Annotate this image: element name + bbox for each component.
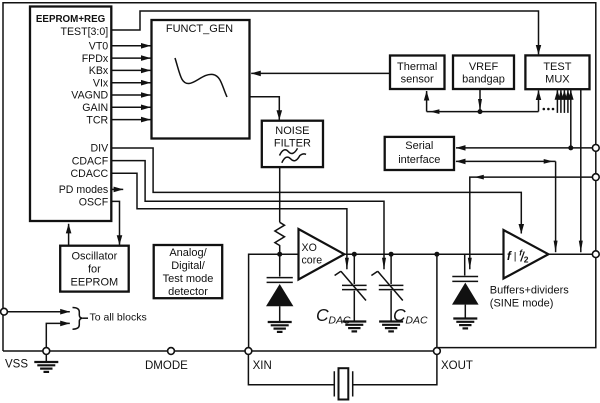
- svg-text:interface: interface: [398, 154, 440, 166]
- pad XOUT: [434, 348, 441, 355]
- svg-text:DIV: DIV: [91, 143, 110, 155]
- svg-text:Serial: Serial: [405, 140, 433, 152]
- svg-text:Test mode: Test mode: [163, 273, 214, 285]
- svg-text:C: C: [393, 305, 406, 325]
- svg-text:FPDx: FPDx: [82, 53, 109, 65]
- wire NOISE FILTER to resistor: [279, 167, 281, 222]
- op-amp buffers f/f2: [504, 230, 549, 279]
- svg-text:FUNCT_GEN: FUNCT_GEN: [166, 23, 233, 35]
- wire to all blocks from VSS: [46, 323, 70, 347]
- pad right serial 2: [592, 174, 599, 181]
- varactor left: [279, 254, 281, 276]
- ground VSS: [34, 362, 58, 372]
- pad VSS: [43, 348, 50, 355]
- wire FUNCT_GEN to NOISE FILTER: [250, 97, 280, 120]
- brace to all blocks: [73, 308, 83, 330]
- svg-text:GAIN: GAIN: [82, 102, 108, 114]
- svg-text:DAC: DAC: [328, 314, 351, 326]
- svg-text:CDACF: CDACF: [72, 155, 109, 167]
- svg-text:C: C: [316, 305, 329, 325]
- svg-text:TCR: TCR: [86, 114, 108, 126]
- noise squiggle symbol: [280, 148, 298, 155]
- svg-text:Oscillator: Oscillator: [71, 250, 117, 262]
- wire thermal sensor to FUNCT_GEN: [251, 72, 390, 74]
- svg-text:TEST[3:0]: TEST[3:0]: [61, 26, 109, 38]
- arrowhead left at thermal corner: [430, 109, 440, 114]
- wire KBx: [111, 69, 150, 71]
- svg-text:KBx: KBx: [89, 65, 109, 77]
- ground CDAC2: [379, 322, 403, 332]
- svg-text:for: for: [88, 263, 101, 275]
- wire CDACF control: [111, 161, 384, 270]
- junction XOUT riser: [434, 252, 439, 257]
- block FUNCT_GEN: [152, 20, 250, 139]
- wire GAIN: [111, 106, 150, 108]
- svg-text:core: core: [302, 255, 323, 267]
- varactor right: [464, 254, 466, 275]
- svg-text:PD modes: PD modes: [59, 184, 108, 196]
- svg-text:TEST: TEST: [543, 61, 571, 73]
- svg-text:CDACC: CDACC: [71, 168, 109, 180]
- crystal X1: [334, 371, 352, 396]
- ground varactor left: [268, 322, 292, 332]
- test mux fan arrow 5 from serial line: [570, 90, 572, 148]
- svg-text:DMODE: DMODE: [145, 360, 188, 372]
- junction serial line 1: [568, 145, 573, 150]
- junction VREF feed: [478, 109, 483, 114]
- block NOISE FILTER: [262, 121, 323, 167]
- svg-text:Analog/: Analog/: [169, 247, 207, 259]
- svg-text:sensor: sensor: [401, 74, 434, 86]
- arrow down from VREF bandgap: [479, 89, 481, 111]
- svg-text:VREF: VREF: [469, 61, 499, 73]
- wire VIx: [111, 82, 150, 84]
- rail buffers to output pad: [548, 253, 594, 255]
- test mux fan arrow 1: [556, 90, 558, 113]
- arrow up into TEST MUX bottom: [538, 91, 540, 112]
- wire TCR: [111, 119, 150, 121]
- wire FPDx: [111, 57, 150, 59]
- block Oscillator for EEPROM: [60, 246, 129, 292]
- wire VAGND: [111, 94, 150, 96]
- rail XO core to buffers: [344, 253, 503, 255]
- wire pad line to varactor control: [470, 177, 594, 269]
- ground CDAC1: [342, 322, 366, 332]
- svg-text:VIx: VIx: [93, 77, 109, 89]
- svg-text:|: |: [514, 251, 517, 263]
- wire TEST[3:0] to TEST MUX: [111, 11, 538, 54]
- wire XOUT riser: [436, 254, 438, 351]
- rail XIN side: [249, 254, 299, 351]
- svg-text:2: 2: [524, 255, 529, 265]
- FUNCT_GEN transfer curve: [175, 58, 227, 97]
- arrow up into thermal sensor: [426, 91, 428, 112]
- wire thermal sensor bottom feed: [427, 111, 539, 113]
- test mux fan arrow 2: [560, 90, 562, 113]
- svg-text:To all blocks: To all blocks: [90, 311, 147, 323]
- wire PD modes stub: [111, 188, 123, 190]
- pad DMODE: [168, 348, 175, 355]
- svg-text:MUX: MUX: [545, 74, 570, 86]
- pad XIN: [245, 348, 252, 355]
- svg-text:FILTER: FILTER: [274, 138, 311, 150]
- ellipsis dots: [543, 108, 546, 111]
- block Analog/Digital/Test mode detector: [154, 245, 223, 298]
- test mux fan arrow 4: [567, 90, 569, 113]
- block Thermal sensor: [390, 56, 445, 90]
- block TEST MUX: [525, 55, 589, 89]
- block Serial interface: [385, 137, 454, 170]
- wire CDACC control: [111, 173, 347, 269]
- wire serial interface line 1: [456, 147, 594, 149]
- svg-text:bandgap: bandgap: [462, 74, 505, 86]
- block VREF bandgap: [453, 56, 514, 90]
- resistor: [275, 222, 285, 254]
- svg-text:Digital/: Digital/: [171, 260, 206, 272]
- wire OSCF to oscillator: [111, 201, 119, 244]
- svg-text:f: f: [507, 249, 512, 263]
- capacitor CDAC2: [389, 252, 394, 257]
- pad right serial 1: [592, 145, 599, 152]
- pad left VSS sense: [1, 308, 8, 315]
- svg-text:OSCF: OSCF: [79, 197, 109, 209]
- junction resistor to rail: [277, 252, 282, 257]
- svg-text:NOISE: NOISE: [275, 125, 309, 137]
- svg-text:XIN: XIN: [253, 360, 272, 372]
- wire DIV to divider triangle: [111, 148, 521, 234]
- svg-text:VT0: VT0: [89, 41, 109, 53]
- wire VSS to ground: [45, 354, 47, 361]
- svg-text:XO: XO: [302, 242, 317, 254]
- svg-text:Buffers+dividers: Buffers+dividers: [490, 285, 569, 297]
- svg-text:XOUT: XOUT: [441, 360, 473, 372]
- pad right output: [592, 251, 599, 258]
- wire to all blocks from pad: [7, 311, 69, 313]
- crystal circuit wires: [248, 351, 437, 385]
- capacitor CDAC1: [352, 252, 357, 257]
- arrowhead left on pad line: [474, 175, 484, 180]
- svg-text:Thermal: Thermal: [397, 61, 437, 73]
- block EEPROM+REG: [30, 7, 111, 222]
- test mux fan arrow 3: [563, 90, 565, 113]
- svg-text:detector: detector: [168, 286, 208, 298]
- arrowhead right on serial line 2: [544, 159, 554, 164]
- wire TEST MUX down to output rail: [580, 89, 582, 252]
- wire serial line 2 down to output rail: [555, 161, 557, 252]
- op-amp XO core: [299, 229, 345, 280]
- svg-text:VAGND: VAGND: [71, 90, 108, 102]
- svg-text:EEPROM+REG: EEPROM+REG: [36, 14, 106, 25]
- wire serial interface line 2: [456, 160, 556, 162]
- ground varactor right: [453, 319, 477, 329]
- svg-text:EEPROM: EEPROM: [71, 276, 119, 288]
- svg-text:VSS: VSS: [5, 359, 28, 371]
- wire VT0: [111, 45, 150, 47]
- svg-text:(SINE mode): (SINE mode): [490, 297, 554, 309]
- svg-text:DAC: DAC: [405, 314, 428, 326]
- wire oscillator to EEPROM: [68, 224, 70, 246]
